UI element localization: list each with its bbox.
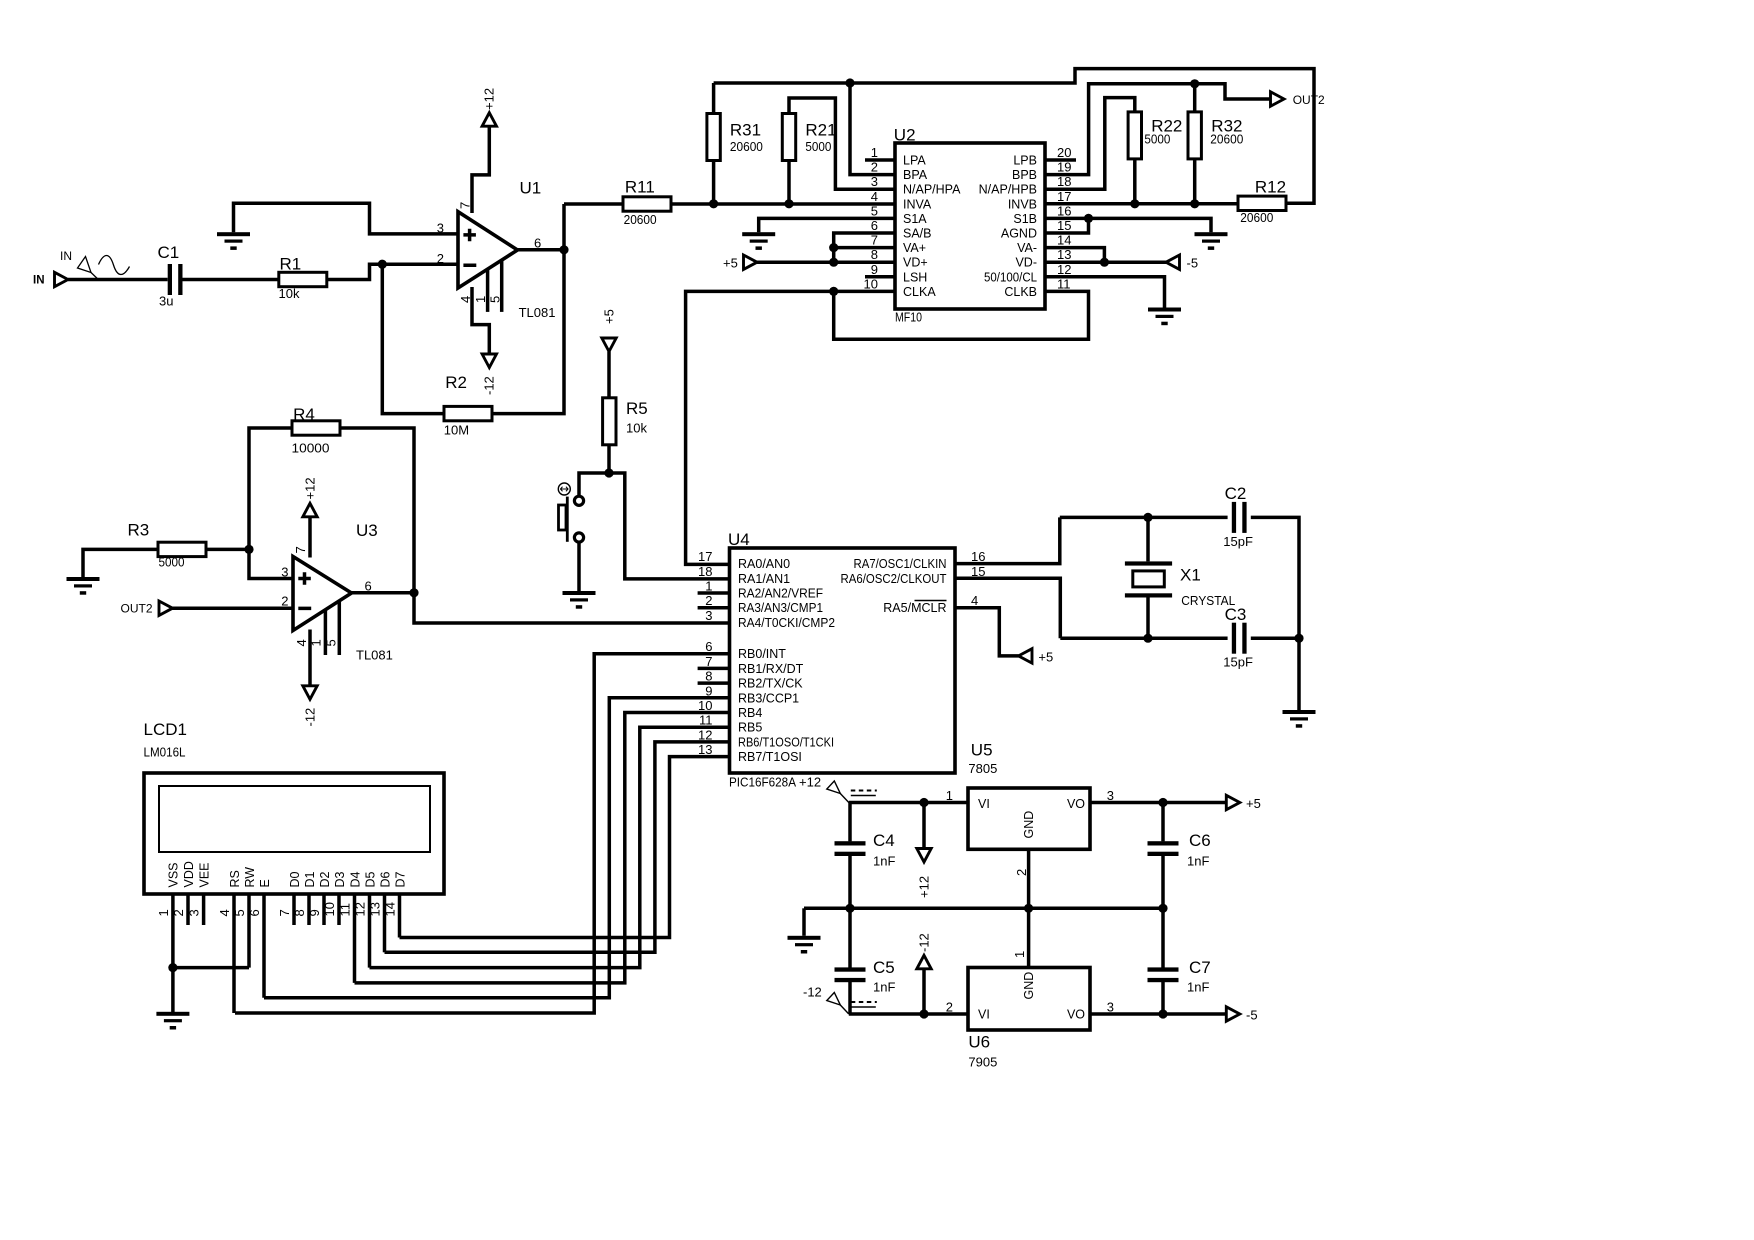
svg-text:X1: X1 [1180,566,1201,585]
svg-text:RB7/T1OSI: RB7/T1OSI [738,750,802,764]
svg-text:U5: U5 [971,740,993,759]
resistor R1 [279,254,327,301]
wire -12 to U6 VI [849,1012,968,1016]
wire R22 bottom [1133,159,1137,204]
power -12 arrow (U1 pin4) [482,354,496,368]
power +12 arrow (supply) [917,849,931,863]
LCD1 pin 2 (VDD) [171,861,196,925]
wire RA7 to crystal top [955,517,1060,563]
wire RB5 to D5 [370,727,731,967]
svg-text:VI: VI [978,1008,990,1022]
svg-text:3: 3 [187,909,202,916]
svg-text:R21: R21 [805,121,836,140]
wire R32 top [1193,84,1197,112]
svg-text:VSS: VSS [167,862,181,887]
svg-text:BPA: BPA [903,168,928,182]
svg-text:15pF: 15pF [1223,534,1253,549]
svg-text:7: 7 [293,546,308,553]
ground LCD ground [156,1012,189,1030]
svg-text:20600: 20600 [624,212,657,227]
op-amp U3 [293,521,393,662]
svg-text:12: 12 [353,902,368,916]
svg-text:-12: -12 [482,376,497,395]
node VA+ node [829,243,838,252]
node BPA branch node [845,78,854,87]
svg-text:1: 1 [473,296,488,303]
capacitor C7 [1148,958,1211,995]
wire U6 VO line [1090,1012,1226,1016]
svg-text:R1: R1 [280,254,302,273]
wire U5 GND stem [1027,849,1031,908]
svg-text:4: 4 [217,909,232,916]
svg-text:C2: C2 [1225,484,1247,503]
svg-text:13: 13 [1057,247,1071,262]
svg-text:10: 10 [322,902,337,916]
svg-text:MF10: MF10 [895,310,922,325]
svg-text:R4: R4 [293,405,315,424]
svg-text:6: 6 [247,909,262,916]
wire R1 to U1 pin2 jog [327,264,458,279]
svg-text:RB1/RX/DT: RB1/RX/DT [738,662,804,676]
power +5 arrow (RA5) [1019,649,1033,663]
svg-text:N/AP/HPB: N/AP/HPB [979,183,1037,197]
svg-text:2: 2 [281,594,288,609]
svg-text:7: 7 [458,202,473,209]
-12 supply arrow [922,968,926,1014]
svg-text:-5: -5 [1246,1008,1258,1023]
wire C3 right [1251,636,1299,640]
svg-text:CLKB: CLKB [1004,285,1037,299]
svg-text:20600: 20600 [1240,210,1273,225]
svg-text:3u: 3u [159,294,173,309]
wire ground to pin3 [234,203,459,234]
svg-text:D7: D7 [393,871,407,887]
ground R3 ground [67,577,100,595]
wire INVB line [1045,202,1239,206]
svg-text:13: 13 [368,902,383,916]
svg-text:LPA: LPA [903,154,926,168]
svg-text:2: 2 [171,909,186,916]
svg-text:N/AP/HPA: N/AP/HPA [903,183,961,197]
svg-text:VA+: VA+ [903,241,926,255]
wire AGND link [1045,218,1089,233]
svg-text:RA5/MCLR: RA5/MCLR [883,601,946,615]
net flag IN [78,257,98,280]
svg-text:+12: +12 [916,876,931,898]
node U3 output node [409,588,418,597]
node U6 VI node [919,1009,928,1018]
LCD1 pin 13 (D6) [368,871,393,952]
wire R4 right to output [340,428,730,623]
svg-text:+5: +5 [602,309,617,324]
node rail GND node [1024,904,1033,913]
svg-text:1nF: 1nF [1187,980,1209,995]
svg-text:14: 14 [1057,233,1071,248]
LCD1 pin 7 (D0) [277,871,302,925]
wire crystal top line [1060,516,1228,520]
wire node to RA1 [609,473,730,579]
node R31-INVA junction [709,199,718,208]
resistor R4 [292,405,341,456]
wire VA- link [1045,248,1104,263]
svg-text:U1: U1 [520,179,542,198]
LCD1 pin 3 (VEE) [187,862,212,925]
power -5 output arrow [1226,1007,1240,1021]
svg-text:-12: -12 [302,708,317,727]
svg-text:INVA: INVA [903,197,932,211]
svg-text:R2: R2 [445,373,467,392]
node VSS-RW tie node [168,963,177,972]
ground power section ground [788,936,821,954]
LCD1 pin 5 (RW) [232,867,257,968]
crystal X1 [1125,517,1235,638]
wire SA/B branch [834,233,895,262]
svg-text:8: 8 [292,909,307,916]
wire button to ground [577,543,581,591]
LCD display LCD1 (LM016L) [144,720,445,894]
svg-text:-12: -12 [803,985,822,1000]
ground button ground [563,591,596,609]
node oscillator ground node [1294,634,1303,643]
sine wave symbol [99,256,130,275]
wire VSS to RW tie [173,966,249,970]
svg-text:20600: 20600 [730,139,763,154]
svg-text:10k: 10k [279,286,300,301]
svg-text:3: 3 [1107,788,1114,803]
svg-text:10k: 10k [626,421,647,436]
svg-text:LCD1: LCD1 [144,720,187,739]
svg-text:RB2/TX/CK: RB2/TX/CK [738,677,803,691]
svg-text:VA-: VA- [1017,241,1037,255]
node S1B-AGND node [1084,214,1093,223]
svg-text:S1B: S1B [1013,212,1037,226]
+12 supply arrow [922,803,926,850]
ground clock select ground [1148,308,1181,326]
svg-text:5: 5 [871,203,878,218]
node R32 top node [1190,79,1199,88]
svg-text:CLKA: CLKA [903,285,936,299]
wire top feedback loop [714,69,1314,204]
svg-text:RA0/AN0: RA0/AN0 [738,557,790,571]
svg-text:1nF: 1nF [1187,854,1209,869]
svg-text:D3: D3 [333,871,347,887]
svg-text:IN: IN [33,275,45,287]
resistor R31 [707,114,763,161]
svg-text:17: 17 [698,549,712,564]
input terminal OUT2 arrow [159,601,173,615]
wire RB4 to D4 [355,713,731,983]
svg-text:S1A: S1A [903,212,927,226]
svg-text:6: 6 [871,218,878,233]
svg-text:7: 7 [277,909,292,916]
wire R21 top to U2 pin3 [789,98,895,189]
svg-text:D2: D2 [318,871,332,887]
wire U6 GND stem [1027,908,1031,967]
svg-text:-12: -12 [916,933,931,952]
node rail C6 node [1158,904,1167,913]
wire IN to C1 [68,278,168,282]
svg-text:RB3/CCP1: RB3/CCP1 [738,691,799,705]
wire OUT2 to U3 pin2 [173,606,294,610]
svg-text:-5: -5 [1187,256,1199,271]
svg-text:SA/B: SA/B [903,227,932,241]
power flag -12 (U6 input) [827,993,877,1015]
power +5 arrow (U2) [744,255,758,269]
wire R3 to node [206,548,249,552]
svg-text:R31: R31 [730,121,761,140]
capacitor C1 [158,243,183,308]
svg-text:GND: GND [1022,811,1036,839]
svg-text:3: 3 [281,565,288,580]
svg-text:BPB: BPB [1012,168,1037,182]
svg-text:PIC16F628A: PIC16F628A [729,775,796,790]
U1 pin 7 [472,127,489,213]
svg-text:E: E [258,879,272,887]
LCD1 pin 11 (D4) [338,871,363,982]
svg-text:+5: +5 [723,256,738,271]
svg-text:11: 11 [338,903,353,917]
svg-text:+5: +5 [1246,796,1261,811]
svg-text:VD+: VD+ [903,256,928,270]
svg-text:VO: VO [1067,797,1085,811]
U3 pin 5 stub [338,601,342,655]
wire C2 right to corner [1251,517,1299,638]
svg-text:10000: 10000 [292,440,330,455]
LCD1 pin 14 (D7) [383,871,408,937]
svg-text:+5: +5 [1038,649,1053,664]
svg-text:U3: U3 [356,521,378,540]
svg-text:2: 2 [437,251,444,266]
power -12 arrow (supply) [917,955,931,969]
U2 pin 20 stub [1045,158,1076,162]
svg-text:RB5: RB5 [738,721,762,735]
svg-text:8: 8 [871,247,878,262]
node R22-INVB junction [1130,199,1139,208]
power +5 arrow (R5) [602,338,616,352]
svg-text:U6: U6 [968,1032,990,1051]
wire VD+ line [757,260,895,264]
power -5 arrow (U2) [1166,255,1180,269]
voltage regulator U6 (7905) [968,968,1090,1070]
svg-text:1: 1 [946,788,953,803]
resistor R22 [1128,112,1182,159]
U3 pin 4 [308,630,312,687]
wire N/AP/HPB to R22 [1045,98,1135,190]
node inverting input node [378,260,387,269]
power +5 output arrow [1226,795,1240,809]
wire RA6 to crystal bottom [955,578,1060,638]
wire RB6 to D6 [385,742,731,952]
node CLKA node [829,287,838,296]
svg-text:LPB: LPB [1013,154,1037,168]
LCD1 pin 9 (D2) [307,871,332,925]
node VD- node [1100,258,1109,267]
svg-text:9: 9 [871,262,878,277]
svg-text:3: 3 [437,221,444,236]
svg-text:7: 7 [871,233,878,248]
svg-text:+12: +12 [302,477,317,499]
svg-text:1nF: 1nF [873,980,895,995]
svg-text:LSH: LSH [903,270,927,284]
svg-text:RS: RS [228,870,242,887]
svg-text:R12: R12 [1255,178,1286,197]
wire crystal bottom line [1060,636,1227,640]
svg-text:RA2/AN2/VREF: RA2/AN2/VREF [738,587,823,601]
svg-text:18: 18 [1057,174,1071,189]
wire R31 top [712,83,716,114]
svg-text:C7: C7 [1189,958,1211,977]
svg-text:20: 20 [1057,145,1071,160]
svg-text:19: 19 [1057,160,1071,175]
ground S1A ground [742,232,775,250]
svg-text:15pF: 15pF [1223,655,1253,670]
svg-text:RB6/T1OSO/T1CKI: RB6/T1OSO/T1CKI [738,735,834,749]
svg-text:5000: 5000 [159,555,185,570]
U1 pin 5 stub [500,260,504,312]
ground oscillator ground [1283,710,1316,728]
svg-text:4: 4 [871,189,878,204]
wire U5 VO line [1090,801,1226,805]
svg-text:12: 12 [1057,262,1071,277]
op-amp filter IC U2 (MF10) [894,126,1045,325]
LCD1 pin 4 (RS) [217,870,242,1013]
svg-text:VD-: VD- [1015,256,1037,270]
wire osc ground drop [1297,638,1301,710]
svg-text:RB4: RB4 [738,706,762,720]
node R5-button node [604,468,613,477]
svg-text:D5: D5 [363,871,377,887]
wire R3 left [83,549,158,577]
wire rail ground drop [802,908,806,936]
svg-text:VO: VO [1067,1008,1085,1022]
LCD1 pin 6 (E) [247,879,272,998]
resistor R12 [1238,178,1286,226]
svg-text:D0: D0 [288,871,302,887]
C4 branch [848,803,852,909]
svg-text:RA3/AN3/CMP1: RA3/AN3/CMP1 [738,601,823,615]
wire middle ground rail [804,907,1163,911]
svg-text:1nF: 1nF [873,854,895,869]
wire VD- line [1045,260,1166,264]
svg-text:18: 18 [698,564,712,579]
svg-text:3: 3 [705,608,712,623]
svg-text:17: 17 [1057,189,1071,204]
svg-text:INVB: INVB [1008,197,1037,211]
node U5 VO node [1158,798,1167,807]
svg-text:5000: 5000 [805,139,831,154]
wire R11 to U2 INVA [671,202,895,206]
svg-text:VI: VI [978,797,990,811]
wire S1A to ground [759,218,895,232]
U3 pin 7 [308,516,312,558]
svg-text:5: 5 [488,296,503,303]
ground U1 noninverting ref [217,232,250,250]
wire R5 to node [607,445,611,473]
power -12 arrow (U3 pin4) [303,686,317,700]
ground S1B ground [1195,232,1228,250]
resistor R32 [1188,112,1243,159]
svg-text:RA1/AN1: RA1/AN1 [738,572,790,586]
input terminal IN arrow [55,272,69,286]
svg-text:C3: C3 [1225,605,1247,624]
svg-text:4: 4 [458,296,473,303]
output terminal OUT2 arrow [1271,92,1285,106]
op-amp U1 [458,179,555,321]
push button switch [558,483,583,542]
wire R2 to output node [492,204,564,414]
wire U1 output [518,248,565,252]
svg-text:VDD: VDD [182,861,196,887]
svg-text:D6: D6 [378,871,392,887]
svg-text:U2: U2 [894,126,916,145]
svg-text:RA6/OSC2/CLKOUT: RA6/OSC2/CLKOUT [841,572,947,586]
U2 pin 9 stub [865,275,895,279]
node VD+ node [829,258,838,267]
wire node to U3 pin3 [249,549,293,578]
voltage regulator U5 (7805) [968,740,1090,849]
svg-text:R5: R5 [626,399,648,418]
svg-text:1: 1 [309,639,324,646]
svg-text:7805: 7805 [968,761,997,776]
svg-text:C5: C5 [873,958,895,977]
capacitor C2 [1223,484,1253,549]
capacitor C3 [1223,605,1253,670]
svg-text:11: 11 [1057,276,1071,291]
wire CLKA line [686,291,895,564]
wire R4 left [249,428,293,549]
U3 pin 1 stub [324,610,328,655]
node crystal top node [1143,513,1152,522]
wire BPB to OUT2 line [1045,84,1269,175]
wire VA+ branch [834,246,895,250]
U4 pin 7 stub [698,667,730,671]
node U1 output node [559,245,568,254]
resistor R5 [603,398,648,445]
svg-text:9: 9 [307,909,322,916]
wire CLKA-CLKB link [834,291,1089,339]
svg-text:5: 5 [232,909,247,916]
LCD1 pin 1 (VSS) [156,862,181,1012]
svg-text:OUT2: OUT2 [121,602,153,616]
svg-text:1: 1 [156,909,171,916]
wire R32 bottom [1193,159,1197,204]
wire C1 to R1 [183,278,280,282]
LCD1 pin 12 (D5) [353,871,378,967]
svg-text:GND: GND [1022,972,1036,1000]
node U3 noninverting node [244,545,253,554]
wire output to R11 [564,202,623,206]
svg-text:+12: +12 [482,88,497,110]
wire U3 output wire [352,591,415,595]
wire RB0 to RS [235,654,730,1013]
svg-text:50/100/CL: 50/100/CL [984,270,1037,284]
svg-text:LM016L: LM016L [144,745,186,760]
wire node to button [579,473,609,495]
svg-text:C1: C1 [158,243,180,262]
U1 pin 1 stub [486,269,490,312]
U4 pin 1 stub [698,591,730,595]
svg-text:RA4/T0CKI/CMP2: RA4/T0CKI/CMP2 [738,616,835,630]
C6 branch [1161,803,1165,909]
wire R21 bottom [787,161,791,204]
svg-text:RB0/INT: RB0/INT [738,647,786,661]
svg-text:2: 2 [1014,869,1029,876]
svg-text:AGND: AGND [1001,227,1037,241]
wire R31 bottom [712,161,716,204]
wire RA5 to +5 [955,608,1019,656]
wire BPA drop [850,83,895,175]
svg-text:R11: R11 [625,178,655,197]
